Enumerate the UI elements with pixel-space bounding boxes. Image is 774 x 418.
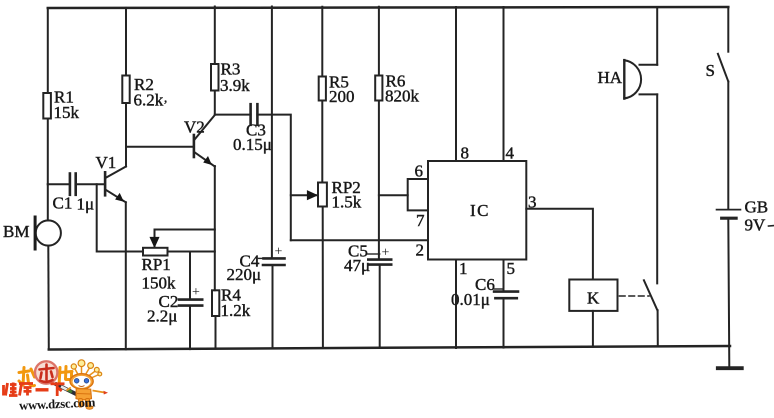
capacitor C6 xyxy=(494,290,518,293)
wire: C6 to rail xyxy=(503,298,505,347)
watermark magnifier handle pen xyxy=(55,384,79,396)
watermark text zhao xyxy=(19,368,35,386)
wire: pin2 wire to IC xyxy=(291,239,428,241)
wire: V2 emitter down to rail xyxy=(214,166,216,290)
resistor R4 xyxy=(212,290,219,316)
svg-text:150k: 150k xyxy=(142,274,177,293)
wire: pin 5 to C6 xyxy=(503,260,505,292)
wire: C1 left lead xyxy=(48,183,70,185)
svg-text:7: 7 xyxy=(416,211,425,230)
capacitor C4 leader xyxy=(259,257,265,259)
svg-text:8: 8 xyxy=(461,144,470,163)
bottom ground rail xyxy=(49,346,730,350)
wire: rail to R2 xyxy=(125,8,127,76)
svg-text:2: 2 xyxy=(416,241,425,260)
relay K box xyxy=(569,280,617,311)
transistor V1 xyxy=(105,167,126,203)
wire: pin 8 to rail xyxy=(455,7,457,161)
svg-text:220μ: 220μ xyxy=(227,265,262,284)
svg-text:1.5k: 1.5k xyxy=(332,193,362,212)
svg-text:820k: 820k xyxy=(385,87,420,106)
svg-text:15k: 15k xyxy=(54,103,80,122)
wire: R1 to C1 junction xyxy=(47,119,49,185)
svg-text:www.dzsc.com: www.dzsc.com xyxy=(19,395,96,412)
wire: C3 right lead and drop to RP2 wiper xyxy=(257,115,290,241)
resistor R1 xyxy=(43,93,51,119)
wire: C1 junction to BM xyxy=(47,184,49,220)
transistor V2 xyxy=(194,115,215,167)
wire: C6 label leader xyxy=(494,288,503,290)
potentiometer RP1 xyxy=(143,248,168,256)
watermark text pian xyxy=(59,367,72,387)
svg-text:1: 1 xyxy=(459,259,468,278)
wire: C1 right lead to V1 base xyxy=(76,183,105,185)
wire: R2 to V1 collector xyxy=(125,103,127,167)
speck negative mark right edge xyxy=(769,225,774,227)
wire: pin 4 to rail xyxy=(503,7,505,161)
relay contact blade xyxy=(644,280,658,310)
wire: R3 to collector node xyxy=(214,91,216,115)
wire: S to battery xyxy=(727,82,729,209)
wire: collector node to C3 xyxy=(215,114,251,116)
svg-text:S: S xyxy=(706,61,715,80)
svg-text:+: + xyxy=(382,246,390,261)
svg-text:5: 5 xyxy=(507,259,516,278)
svg-text:V1: V1 xyxy=(96,153,117,172)
wire: R2 bottom to V2 base xyxy=(126,146,194,148)
wire: RP1 wiper wire xyxy=(155,229,215,231)
wire: rail to R3 xyxy=(214,7,216,65)
resistor R5 xyxy=(319,77,326,101)
wire: RP1 right to V2 emitter column xyxy=(168,251,215,253)
svg-text:K: K xyxy=(587,289,600,308)
wire: HA to relay contact xyxy=(656,94,658,283)
potentiometer RP2 xyxy=(318,183,327,207)
wire: HA column from rail xyxy=(656,7,658,65)
wire: pin 6 stub xyxy=(408,179,428,210)
wire: RP1 wiper arrow xyxy=(154,230,156,248)
svg-text:200: 200 xyxy=(329,87,355,106)
wire: R5 to RP2 xyxy=(321,101,323,183)
wire: relay contact to rail xyxy=(657,310,659,346)
resistor R6 xyxy=(375,76,382,101)
wire: battery to ground xyxy=(728,220,729,367)
capacitor C5 xyxy=(368,258,391,261)
wire: V1 base tap down to RP1 xyxy=(97,184,143,251)
microphone BM xyxy=(36,220,61,245)
watermark text weikuyixia xyxy=(4,383,65,397)
wire: C2 to rail xyxy=(189,306,191,350)
svg-text:IC: IC xyxy=(470,201,490,220)
svg-text:BM: BM xyxy=(3,222,29,241)
svg-text:2.2μ: 2.2μ xyxy=(147,307,177,326)
svg-text:C1: C1 xyxy=(53,194,73,213)
wire: C2 drop xyxy=(189,252,191,300)
top power rail xyxy=(48,7,729,8)
buzzer HA xyxy=(624,60,657,99)
svg-text:4: 4 xyxy=(506,144,515,163)
wire: K dashed link xyxy=(620,295,650,297)
svg-text:1μ: 1μ xyxy=(77,195,95,214)
wire: rail to C4 xyxy=(271,7,273,259)
watermark mascot xyxy=(67,360,109,410)
capacitor C4 xyxy=(264,257,285,260)
svg-text:GB: GB xyxy=(745,198,769,217)
wire: pin 1 to rail xyxy=(455,260,457,349)
resistor R3 xyxy=(211,64,219,91)
watermark magnifier with xin xyxy=(35,361,57,383)
wire: BM to bottom rail xyxy=(47,246,50,350)
wire: R6 down to C5 xyxy=(378,101,380,260)
capacitor C2 xyxy=(179,298,202,301)
svg-text:HA: HA xyxy=(598,68,623,87)
battery GB xyxy=(717,210,741,219)
resistor R2 xyxy=(122,76,129,104)
svg-text:0.01μ: 0.01μ xyxy=(451,290,490,309)
svg-text:0.15μ: 0.15μ xyxy=(233,135,272,154)
IC U1 box xyxy=(428,161,526,260)
svg-text:6: 6 xyxy=(415,162,424,181)
svg-text:9V: 9V xyxy=(745,216,767,235)
wire: RP2 bottom to rail xyxy=(322,207,324,348)
wire: rail to R6 xyxy=(378,7,380,76)
svg-text:V2: V2 xyxy=(184,118,205,137)
wire: rail to R5 xyxy=(321,7,323,77)
svg-text:3: 3 xyxy=(528,193,537,212)
wire: pin 3 to relay K xyxy=(526,209,593,280)
svg-text:6.2k: 6.2k xyxy=(134,91,164,110)
svg-text:47μ: 47μ xyxy=(344,256,370,275)
svg-text:3.9k: 3.9k xyxy=(220,76,250,95)
wire: RP2 wiper arrow xyxy=(291,194,317,196)
wire: C5 to rail xyxy=(379,265,381,348)
wire: right column rail corner to switch S xyxy=(727,7,729,52)
wire: K bottom to rail xyxy=(592,311,594,347)
wire: R6 node to pins 6-7 tie xyxy=(379,194,408,196)
wire: C4 to rail xyxy=(272,265,274,349)
wire: C5 label leader xyxy=(367,253,379,255)
svg-text:1.2k: 1.2k xyxy=(221,301,251,320)
svg-text:,: , xyxy=(164,90,167,105)
svg-text:RP1: RP1 xyxy=(142,255,171,274)
wire: V1 emitter to bottom rail xyxy=(125,202,127,349)
capacitor C1 xyxy=(69,174,72,195)
ground xyxy=(718,366,742,370)
wire: R4 to rail xyxy=(215,316,217,349)
switch S blade xyxy=(718,54,728,82)
watermark xyxy=(4,360,109,413)
svg-text:+: + xyxy=(192,285,200,300)
wire: left column, rail to R1 xyxy=(47,8,49,93)
svg-text:+: + xyxy=(275,245,283,260)
capacitor C3 xyxy=(249,104,252,125)
